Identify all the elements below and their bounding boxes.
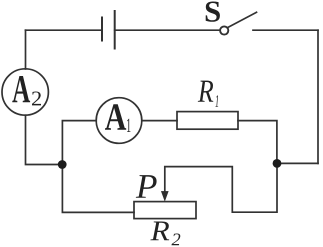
label P (wiper) xyxy=(136,175,157,198)
ammeter A2 circle xyxy=(2,69,48,115)
label R2 subscript 2 xyxy=(171,234,180,246)
label S (switch) xyxy=(206,1,220,21)
wire right horizontal into junction xyxy=(277,162,318,164)
wire A2 to bottom-left corner xyxy=(26,115,63,164)
label A2 subscript 2 xyxy=(32,91,41,105)
label R2 letter R xyxy=(150,222,169,241)
wire node junction up to A1 branch xyxy=(62,121,96,165)
ammeter A1 circle xyxy=(96,98,142,144)
label A2 letter A xyxy=(12,76,30,102)
junction node right (dot) xyxy=(273,159,282,168)
label A1 subscript 1 xyxy=(127,119,130,132)
wire A1 to R1 xyxy=(142,120,177,122)
wire junction down to R2 feed (left branch) xyxy=(62,165,134,213)
label R1 subscript 1 xyxy=(215,95,218,107)
wire top-left horizontal (to battery) xyxy=(26,29,102,31)
switch S pivot circle xyxy=(220,26,228,34)
wire right vertical xyxy=(317,30,319,163)
resistor R1 box xyxy=(177,112,238,130)
resistor R2 (rheostat) box xyxy=(134,202,196,219)
battery B1 short plate (negative) xyxy=(101,18,103,41)
wiper arrowhead onto R2 xyxy=(161,191,168,200)
wire switch to top-right corner xyxy=(253,29,318,31)
wire battery to switch xyxy=(115,29,220,31)
label R1 letter R xyxy=(198,81,213,102)
wire wiper step: junction down, left, up, left to arrow xyxy=(165,163,277,212)
label A1 letter A xyxy=(105,104,126,130)
wire left vertical upper (corner to A2) xyxy=(25,30,27,69)
wire R1 right down to junction xyxy=(238,121,277,164)
junction node left (dot) xyxy=(58,160,67,169)
battery B1 long plate (positive) xyxy=(114,11,116,49)
switch S blade (open) xyxy=(228,12,257,27)
